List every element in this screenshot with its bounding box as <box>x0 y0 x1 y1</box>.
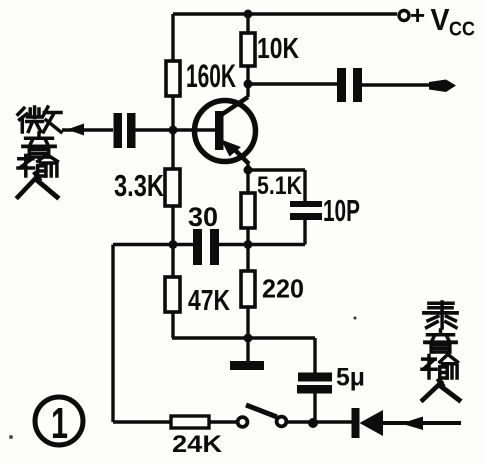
label mic-input char ru <box>18 174 57 198</box>
output arrow right <box>429 80 456 93</box>
node emitter junction <box>244 166 253 175</box>
wire base node to transistor <box>130 128 215 131</box>
resistor 5.1K <box>241 193 255 228</box>
svg-text:30: 30 <box>188 202 218 232</box>
svg-text:V: V <box>431 2 450 37</box>
svg-text:10P: 10P <box>323 193 360 228</box>
svg-text:24K: 24K <box>172 431 223 458</box>
wire output line <box>248 82 337 85</box>
capacitor output coupling <box>337 68 362 102</box>
label rec-input char yin <box>425 330 456 352</box>
diode D1 <box>352 408 384 438</box>
svg-text:47K: 47K <box>188 285 230 317</box>
resistor 47K <box>165 277 180 312</box>
input arrow bottom right (recording input) <box>401 417 423 431</box>
label mic-input char yin <box>23 133 55 157</box>
wire 5u branch <box>313 338 316 423</box>
wire 24K to switch <box>209 420 237 423</box>
wire collector rail <box>246 14 249 97</box>
node top rail junction <box>244 10 253 19</box>
resistor 3.3K <box>165 169 180 206</box>
svg-text:5μ: 5μ <box>336 364 365 392</box>
label rec-input char shu <box>422 355 458 378</box>
input arrow left (microphone input) <box>67 124 84 136</box>
node 30 cap right junction <box>244 240 253 249</box>
resistor 220 <box>241 271 255 307</box>
resistor 10K <box>241 33 255 66</box>
capacitor input coupling <box>114 113 136 148</box>
wire 10P loop <box>248 170 305 245</box>
svg-text:1: 1 <box>51 399 68 448</box>
Vcc terminal circle <box>399 11 409 21</box>
svg-text:220: 220 <box>262 274 304 304</box>
label mic-input char wei <box>18 107 61 132</box>
wire 30 cap row <box>113 243 248 246</box>
node base junction <box>169 126 178 135</box>
wire top supply rail <box>173 12 397 15</box>
capacitor 30 <box>193 229 219 265</box>
svg-text:3.3K: 3.3K <box>114 168 164 203</box>
label rec-input char ru <box>423 380 459 400</box>
switch S1 <box>238 405 287 427</box>
node collector junction <box>244 80 253 89</box>
ground <box>230 361 264 370</box>
wire 47K to emitter ground row <box>172 336 315 339</box>
speck <box>354 317 357 320</box>
svg-text:+: + <box>410 0 425 30</box>
wire output after cap <box>362 83 436 86</box>
wire diode to input arrow <box>383 421 461 425</box>
figure number circled 1 <box>35 397 83 448</box>
wire left feedback loop <box>113 245 171 423</box>
wire input to coupling cap <box>62 128 113 131</box>
label +Vcc <box>410 0 475 41</box>
resistor 24K <box>171 416 209 428</box>
svg-text:10K: 10K <box>257 33 299 65</box>
node 30 cap left junction <box>169 240 178 249</box>
wire left rail vertical segments <box>171 14 174 338</box>
svg-text:5.1K: 5.1K <box>257 172 302 200</box>
transistor Q1 <box>195 97 256 164</box>
resistor 160K <box>166 61 180 96</box>
node emitter ground junction <box>244 334 253 343</box>
svg-text:160K: 160K <box>186 58 236 94</box>
capacitor 5u <box>297 373 332 394</box>
label rec-input char lu <box>424 302 457 328</box>
node 5u bottom junction <box>308 418 318 428</box>
svg-text:CC: CC <box>449 19 475 41</box>
label mic-input char shu <box>18 155 57 176</box>
wire switch to 5u node <box>287 420 352 423</box>
capacitor 10P <box>290 201 322 220</box>
wire emitter rail <box>246 164 249 362</box>
